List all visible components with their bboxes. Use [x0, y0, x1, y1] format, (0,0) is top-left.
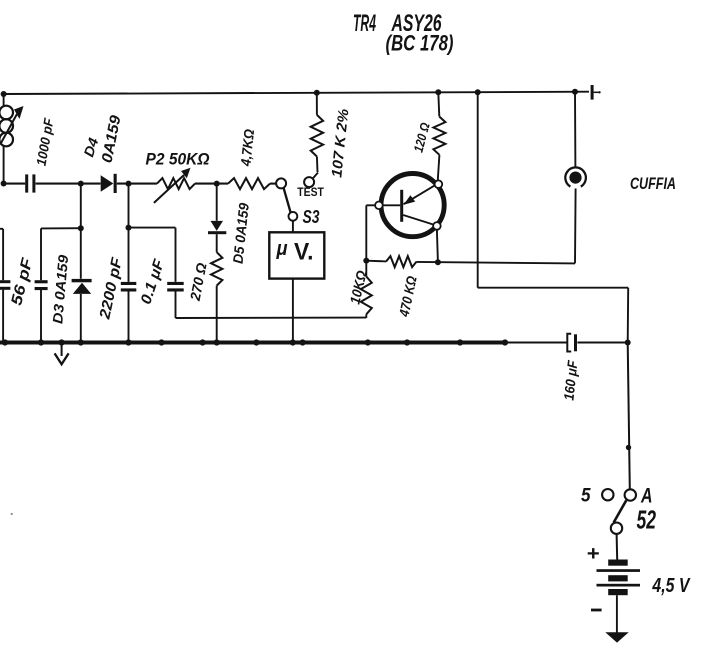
label D4 — [80, 136, 101, 159]
label S2 — [637, 505, 657, 535]
wire ground bus thin — [505, 342, 628, 344]
label 160 uF — [560, 359, 580, 401]
wire jack column top — [574, 92, 576, 168]
wire S2 to battery — [616, 534, 619, 560]
label 4,7K — [237, 128, 257, 167]
wire D5 to R 270 — [216, 234, 218, 252]
bus node l — [457, 339, 463, 345]
switch S2 spare contact — [602, 489, 613, 500]
terminal mark at rail end — [591, 85, 601, 100]
diode D3 0A159 — [72, 279, 92, 294]
wire meter to ground bus — [292, 279, 294, 343]
resistor 4.7K — [228, 178, 270, 189]
wire 56pF branch left — [2, 229, 4, 343]
wire D5 branch top — [216, 184, 218, 221]
switch S2 arm — [614, 500, 627, 522]
node P2 left junction — [126, 181, 132, 187]
bus node d — [125, 339, 131, 345]
label 270 ohm — [187, 261, 210, 302]
wire battery feed horizontal — [478, 287, 629, 289]
label 10K — [347, 269, 370, 306]
wire top supply rail — [4, 92, 589, 94]
bus node b — [38, 339, 44, 345]
switch S3 fixed contact — [276, 178, 286, 188]
wire 2200pF branch — [128, 184, 130, 343]
ground symbol battery — [605, 632, 628, 642]
node emitter junction — [435, 259, 441, 265]
node rail left end — [1, 91, 7, 97]
label 56 pF — [8, 256, 36, 307]
label 2200 pF — [96, 255, 126, 321]
transistor TR4 base contact — [375, 202, 383, 210]
bus node e — [158, 339, 164, 345]
label 4,5 V — [652, 575, 691, 597]
wire left stub from edge — [0, 228, 3, 230]
bus node j — [365, 339, 371, 345]
label 0.1 uF — [138, 257, 169, 307]
bus node c — [78, 339, 84, 345]
wire S2 column — [628, 343, 630, 490]
node rail R6 tap — [435, 89, 441, 95]
node S2 column mid — [626, 445, 631, 450]
node input corner — [1, 181, 7, 187]
capacitor 160 uF — [567, 334, 577, 352]
svg-text:4,5 V: 4,5 V — [652, 575, 691, 597]
switch S2 contact A — [625, 489, 636, 500]
bus node a — [2, 339, 8, 345]
wire 10K to feedback corner — [365, 314, 367, 318]
resistor R5 107K 2% — [311, 93, 323, 172]
label battery plus — [587, 543, 600, 565]
transistor TR4 collector contact — [433, 222, 441, 230]
bus node f — [200, 339, 206, 345]
bus node m — [502, 339, 508, 345]
switch S3 arm — [284, 188, 291, 213]
resistor 470K — [386, 256, 417, 267]
bus node h — [253, 339, 259, 345]
wire emitter line right — [417, 262, 576, 264]
test point contact — [304, 173, 318, 188]
wire emitter line left — [366, 260, 386, 263]
headphone jack (CUFFIA) — [565, 167, 586, 186]
node rail jack tap — [572, 89, 578, 95]
svg-text:5: 5 — [581, 485, 591, 507]
diode D5 0A159 — [208, 221, 226, 234]
svg-text:TEST: TEST — [297, 187, 324, 199]
resistor 10K — [361, 277, 372, 315]
label P2 50K — [146, 150, 210, 169]
wire 56pF branch right — [40, 228, 42, 342]
wire S3 pole to meter — [292, 221, 294, 233]
label 1000 pF — [34, 116, 57, 167]
label CUFFIA — [630, 175, 676, 193]
svg-text:S3: S3 — [303, 206, 321, 227]
wire battery feed down — [627, 288, 630, 343]
svg-text:μ: μ — [276, 238, 288, 260]
label 5 — [581, 485, 591, 507]
capacitor C 1000 pF — [25, 174, 35, 192]
label battery minus — [591, 609, 602, 612]
wire feedback line — [176, 317, 367, 319]
label TR4 ASY26 (BC 178) — [353, 10, 454, 56]
wire signal line — [4, 183, 277, 185]
bus node i — [300, 339, 306, 345]
svg-text:52: 52 — [637, 505, 657, 535]
svg-text:P2 50KΩ: P2 50KΩ — [146, 150, 210, 169]
capacitor 2200 pF — [121, 282, 137, 292]
node D4 anode junction — [78, 181, 84, 187]
wire jack column bottom — [574, 189, 577, 264]
switch S2 pole contact — [611, 523, 622, 534]
resistor R6 120 ohm — [433, 92, 445, 180]
bus node k — [404, 339, 410, 345]
bus node g — [214, 339, 220, 345]
wire rail to battery column — [477, 92, 479, 288]
battery 4.5V — [597, 560, 641, 596]
node rail R5 tap — [314, 90, 320, 96]
svg-text:CUFFIA: CUFFIA — [630, 175, 676, 193]
label D5 0A159 — [230, 202, 252, 265]
svg-text:(BC 178): (BC 178) — [386, 31, 454, 56]
label 120 ohm — [411, 121, 433, 154]
speck artifact — [11, 513, 13, 515]
resistor 270 ohm — [211, 252, 222, 285]
svg-text:V.: V. — [294, 239, 314, 266]
wire R270 to bus — [216, 286, 218, 343]
wire 0.1uF branch link — [129, 227, 176, 229]
potentiometer P2 50K — [154, 168, 195, 203]
svg-text:+: + — [587, 543, 600, 565]
svg-text:TR4: TR4 — [353, 10, 376, 37]
capacitor second 56 pF — [35, 280, 48, 290]
ground symbol on bus — [55, 343, 69, 365]
wire emitter lead — [437, 230, 438, 263]
label S3 — [303, 206, 321, 227]
wire bias junction to 10K — [365, 261, 367, 277]
label 107 K 2% — [329, 108, 352, 178]
label 470 K — [395, 274, 419, 318]
wire 56pF branch link — [41, 227, 81, 229]
label TEST — [297, 187, 324, 199]
wire battery to ground — [616, 595, 618, 640]
transistor TR4 body — [381, 174, 444, 237]
transistor TR4 emitter contact — [435, 180, 443, 188]
label 0A159 (D4) — [99, 113, 125, 164]
wire D3 branch — [80, 184, 82, 343]
potentiometer P1 (tuning, helix symbol) — [0, 94, 24, 184]
wire ground bus thick — [0, 341, 505, 345]
node base bias junction — [363, 258, 369, 264]
diode D4 0A159 — [101, 174, 117, 193]
node D3 branch junction — [78, 225, 84, 231]
label D3 0A159 — [49, 254, 71, 324]
capacitor 56 pF (left) — [0, 280, 10, 290]
switch S3 pole contact — [289, 212, 298, 221]
bus node meter — [290, 339, 296, 345]
wire 0.1uF branch — [175, 228, 177, 318]
bus node gnd — [59, 339, 65, 345]
node D5 top junction — [214, 181, 220, 187]
node battery column junction — [625, 340, 631, 346]
capacitor 0.1 uF — [167, 282, 184, 292]
label A — [640, 485, 652, 508]
wire base lead — [366, 205, 375, 260]
meter uV box — [269, 232, 324, 278]
node 0.1uF branch junction — [126, 225, 132, 231]
node rail battery tap — [475, 89, 481, 95]
